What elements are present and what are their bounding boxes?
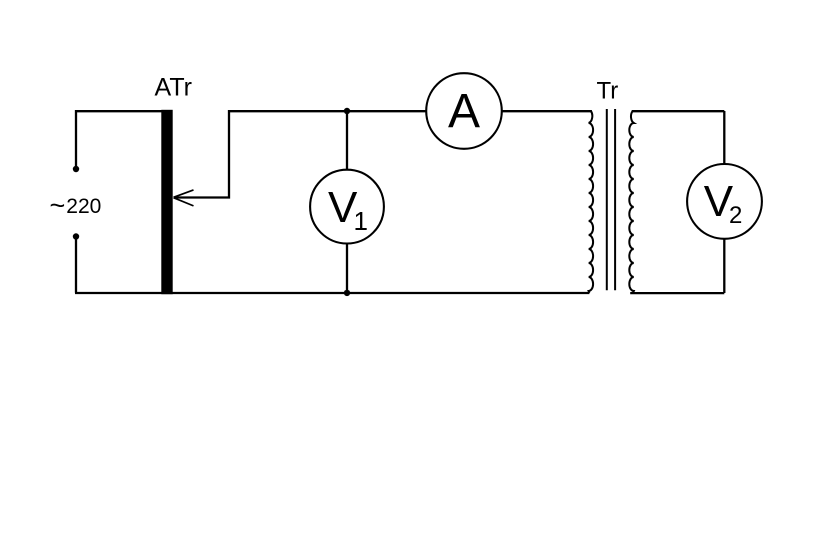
terminal dot upper (~220 source)	[73, 166, 79, 172]
voltmeter V2 circle	[687, 164, 762, 239]
svg-text:220: 220	[66, 195, 101, 218]
autotransformer ATr winding bar	[161, 110, 172, 294]
wire top rail (tap corner to primary coil)	[229, 110, 592, 112]
wire bottom rail left (source to primary coil)	[75, 292, 589, 294]
svg-text:ATr: ATr	[155, 73, 193, 101]
svg-text:1: 1	[354, 206, 368, 236]
svg-text:~: ~	[50, 191, 66, 221]
wire left rail upper	[75, 110, 77, 167]
svg-text:2: 2	[729, 202, 742, 229]
wire left rail lower	[75, 239, 77, 293]
wire top left from source to ATr	[75, 110, 163, 112]
wire V2 branch	[723, 111, 725, 293]
node junction dot top (V1 / top rail)	[344, 108, 350, 114]
voltmeter V1 circle	[310, 170, 384, 244]
transformer Tr secondary coil	[629, 110, 634, 293]
svg-text:Tr: Tr	[597, 78, 619, 105]
wire tap riser and shaft	[175, 110, 229, 198]
svg-text:A: A	[448, 85, 480, 138]
terminal dot lower (~220 source)	[73, 233, 79, 239]
wire bottom rail right (secondary coil to V2)	[630, 292, 724, 294]
wiper arrow of ATr	[174, 190, 194, 206]
ammeter A circle	[426, 73, 502, 149]
wire V1 branch	[346, 111, 348, 293]
wire secondary top (coil to V2)	[632, 110, 725, 112]
transformer Tr primary coil	[589, 110, 594, 293]
node junction dot bottom (V1 / bottom rail)	[344, 290, 350, 296]
transformer Tr core lines	[607, 109, 615, 290]
